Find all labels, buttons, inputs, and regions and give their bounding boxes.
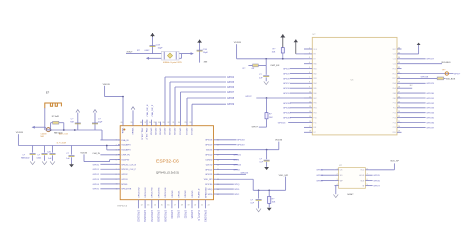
node RF junction 2 [63, 129, 76, 131]
svg-text:VDD33: VDD33 [234, 42, 242, 44]
wire RF main [45, 129, 102, 131]
capacitor C28 [259, 65, 269, 81]
wire EN branch down [265, 59, 267, 66]
svg-text:SPICS0: SPICS0 [205, 184, 213, 186]
svg-text:10pF: 10pF [158, 47, 164, 49]
svg-text:6: 6 [367, 179, 368, 181]
capacitor C20 [70, 119, 80, 124]
svg-text:26: 26 [398, 96, 400, 98]
svg-text:1: 1 [337, 168, 338, 170]
svg-text:GPIO19: GPIO19 [237, 145, 245, 147]
svg-text:C?: C? [22, 155, 26, 157]
svg-text:VDDA3P3: VDDA3P3 [121, 144, 131, 147]
capacitor C25 [250, 190, 261, 208]
svg-text:P14: P14 [393, 122, 396, 124]
svg-text:CH4_IN: CH4_IN [92, 153, 100, 155]
U6 right pins [359, 168, 369, 187]
svg-text:31: 31 [172, 122, 174, 124]
svg-text:37: 37 [144, 122, 146, 124]
wire ADC pin4 [100, 154, 120, 156]
wire XOUT line [126, 53, 192, 55]
net label XIN [204, 61, 208, 63]
svg-text:C?: C? [37, 155, 41, 157]
svg-text:GPIO13: GPIO13 [278, 122, 286, 124]
wire antenna feed [44, 108, 46, 130]
svg-text:GPIO?: GPIO? [252, 126, 259, 128]
wire VDD33 across [105, 96, 123, 98]
svg-text:10K: 10K [272, 52, 276, 54]
svg-text:NM: NM [70, 121, 74, 123]
svg-text:GPIO28: GPIO28 [421, 77, 429, 79]
svg-text:GPIO06: GPIO06 [159, 128, 161, 136]
inductor L1 label [52, 116, 60, 118]
wire XIN return line [148, 57, 182, 59]
ground C23 [42, 161, 47, 164]
svg-text:GPIO18: GPIO18 [237, 140, 245, 142]
svg-text:GPIO34: GPIO34 [426, 113, 434, 115]
VDD arrow C21 [93, 110, 97, 113]
net label VDD33 right [275, 140, 283, 142]
svg-text:C?: C? [66, 153, 70, 155]
svg-text:0R: 0R [252, 68, 255, 70]
svg-text:R?: R? [272, 199, 276, 201]
capacitor C24 [259, 150, 269, 167]
svg-text:1uF: 1uF [250, 203, 254, 205]
node bus-pin3 [106, 145, 108, 147]
svg-text:C15: C15 [393, 64, 396, 66]
wire U5 pin2 VDD [296, 53, 304, 55]
svg-text:13: 13 [309, 106, 311, 108]
svg-text:GPIO19: GPIO19 [205, 145, 213, 147]
ground U6 [333, 194, 338, 197]
antenna E1 designator [46, 91, 50, 95]
svg-text:7: 7 [309, 77, 310, 79]
svg-text:GPIO16/S3: GPIO16/S3 [143, 210, 145, 223]
wire BOOT long [245, 96, 304, 98]
svg-text:PA8: PA8 [393, 92, 396, 95]
node EN junctions [265, 58, 283, 60]
svg-text:2: 2 [337, 174, 338, 176]
capacitor C22 stub [32, 146, 34, 153]
U1 left GPIO stub wires [93, 164, 118, 190]
svg-text:3: 3 [309, 57, 310, 59]
svg-text:RST: RST [392, 78, 395, 80]
svg-text:GPIO6: GPIO6 [227, 87, 235, 89]
U1 top pins [120, 122, 192, 140]
power flag (XTAL) [150, 33, 155, 37]
svg-text:GPIO?: GPIO? [454, 73, 461, 75]
svg-text:13: 13 [147, 204, 149, 206]
capacitor C20 wire [77, 113, 79, 130]
svg-text:GPIO11: GPIO11 [283, 108, 291, 110]
capacitor C26 [47, 151, 56, 160]
ground C22 [30, 161, 35, 164]
svg-text:33: 33 [398, 62, 400, 64]
U5 right pins [392, 47, 401, 134]
svg-text:GPIO3: GPIO3 [93, 179, 100, 181]
svg-text:P12: P12 [393, 113, 396, 115]
svg-text:SPIQ: SPIQ [234, 184, 239, 186]
svg-text:GPIO2: GPIO2 [93, 174, 100, 176]
svg-text:VDD33: VDD33 [206, 150, 213, 152]
svg-text:GPIO18: GPIO18 [205, 140, 213, 142]
svg-text:GPIO12: GPIO12 [185, 128, 187, 136]
svg-text:GPIO10: GPIO10 [179, 128, 181, 136]
svg-text:VDD33: VDD33 [103, 84, 111, 86]
inductor L1 alt label [54, 133, 63, 135]
svg-text:GPIO2: GPIO2 [316, 181, 323, 183]
crystal X1 outline [162, 51, 180, 60]
resistor R3 [268, 190, 276, 207]
svg-text:GPIO22: GPIO22 [183, 210, 185, 219]
svg-text:5: 5 [309, 67, 310, 69]
svg-text:N? 0dR: N? 0dR [52, 116, 60, 118]
wire q3 label [402, 59, 435, 61]
net label XTAL_N vertical [146, 104, 149, 117]
svg-text:39: 39 [130, 122, 132, 124]
svg-text:GPIO4: GPIO4 [227, 77, 235, 79]
wires GPIO fan to labels [165, 77, 235, 124]
svg-text:18: 18 [309, 131, 311, 133]
svg-text:GPIO7: GPIO7 [227, 92, 235, 94]
U1 right wires rows 4-7 [216, 154, 242, 171]
svg-text:1uF: 1uF [66, 158, 70, 160]
capacitor C22 [21, 154, 36, 161]
svg-text:GPIO30: GPIO30 [426, 93, 434, 95]
svg-text:20: 20 [398, 126, 400, 128]
VDD arrow C20 [76, 110, 80, 113]
svg-text:GPIO26: GPIO26 [241, 173, 249, 175]
svg-text:GPIO36: GPIO36 [426, 122, 434, 124]
svg-text:VDD_SPI: VDD_SPI [279, 175, 289, 177]
svg-text:GPIO18/S5: GPIO18/S5 [157, 210, 159, 223]
svg-text:GPIO25: GPIO25 [190, 210, 192, 219]
svg-text:CHIP_EN: CHIP_EN [270, 65, 280, 67]
svg-text:GPIO5: GPIO5 [227, 82, 235, 84]
RF connector J1 [46, 128, 50, 132]
U1 title [156, 159, 179, 165]
svg-text:P11: P11 [314, 122, 317, 124]
ground C25 [256, 209, 261, 212]
capacitor C27 [66, 153, 74, 163]
svg-text:36: 36 [398, 47, 400, 49]
svg-text:VDD-BUS: VDD-BUS [446, 78, 456, 80]
inductor bus note [56, 142, 66, 144]
svg-text:GPIO6: GPIO6 [283, 78, 290, 80]
svg-text:I2C_S: I2C_S [233, 159, 239, 161]
svg-text:R?: R? [137, 50, 141, 52]
svg-text:8: 8 [367, 168, 368, 170]
svg-text:4: 4 [116, 154, 117, 156]
capacitor C21 [92, 119, 103, 124]
svg-text:GPIO17/S4: GPIO17/S4 [150, 210, 152, 223]
svg-text:SPID: SPID [234, 189, 239, 191]
svg-text:GPIO21: GPIO21 [177, 210, 179, 219]
wire RF loop up-right [63, 123, 65, 130]
svg-text:GPIO12: GPIO12 [283, 113, 291, 115]
wire VDD33 row3 long [216, 142, 279, 150]
net label BOOT low [252, 126, 267, 128]
U1 right wire row8 [216, 173, 249, 175]
svg-text:GPIO7: GPIO7 [373, 186, 380, 188]
resistor R5 [437, 77, 456, 80]
svg-text:25: 25 [398, 101, 400, 103]
wire U6 VCC [369, 163, 394, 169]
svg-text:GPIO5: GPIO5 [93, 189, 100, 191]
svg-text:5: 5 [367, 184, 368, 186]
svg-text:19: 19 [398, 131, 400, 133]
node BOOT junction [266, 97, 268, 99]
svg-text:TP?: TP? [442, 70, 445, 72]
svg-text:U?: U? [313, 34, 317, 36]
svg-text:GPIO16/S3: GPIO16/S3 [145, 187, 147, 198]
svg-text:1: 1 [116, 140, 117, 142]
svg-text:GPIO2: GPIO2 [233, 169, 240, 171]
U1 right pins [204, 140, 219, 196]
svg-text:24: 24 [398, 106, 400, 108]
svg-text:40: 40 [120, 122, 122, 124]
U5 left label wires 2 [283, 103, 304, 120]
svg-text:U0RXD: U0RXD [206, 159, 213, 161]
svg-text:GPIO3: GPIO3 [121, 179, 128, 181]
svg-text:20: 20 [194, 204, 196, 206]
svg-text:29: 29 [398, 82, 400, 84]
svg-text:PA0: PA0 [314, 63, 317, 66]
U5 refdes [313, 34, 317, 36]
svg-text:P10: P10 [393, 103, 396, 105]
svg-text:SPIC: SPIC [234, 194, 239, 196]
power flag (XTAL right) [197, 40, 202, 43]
wire VDD_SPI riser [285, 177, 287, 191]
U1 refdes [118, 205, 128, 207]
svg-text:SPIQ: SPIQ [208, 189, 213, 191]
svg-text:PB2: PB2 [314, 113, 317, 115]
svg-text:4: 4 [337, 184, 338, 186]
svg-text:PA7: PA7 [314, 97, 317, 100]
capacitor C27 stub [71, 146, 73, 155]
wire VDDA pin up [122, 97, 124, 124]
resistor R2 series 0R [243, 64, 267, 70]
power arrow U1 pin39 [131, 107, 135, 124]
svg-text:31: 31 [398, 72, 400, 74]
svg-text:GPIO5: GPIO5 [373, 175, 380, 177]
mcu U5 outline [312, 37, 397, 134]
wire pin5 stub [110, 159, 121, 161]
net label VDD_SPI [279, 175, 289, 177]
svg-text:VDD33: VDD33 [80, 153, 88, 155]
svg-text:10pF: 10pF [203, 52, 209, 54]
resistor R1 pull-up [272, 48, 285, 59]
svg-text:GPIO19/S6: GPIO19/S6 [163, 210, 165, 223]
svg-text:GPIO1: GPIO1 [93, 169, 100, 171]
power arrow U5 right [402, 43, 421, 54]
node VDD33 corner [122, 96, 124, 98]
U1 left pins [116, 139, 137, 191]
inductor L1 [53, 121, 59, 124]
U1 right wires rows 10-12 [216, 184, 240, 196]
svg-text:E?: E? [46, 91, 50, 95]
net label VDD_SPI U6 [390, 161, 399, 163]
node VDD_SPI junctions [258, 189, 270, 191]
svg-text:SPIC4TRE: SPIC4TRE [121, 189, 131, 191]
svg-text:VBT: VBT [393, 49, 396, 51]
svg-text:8: 8 [309, 82, 310, 84]
node RF junction 1 [50, 129, 52, 131]
svg-text:GPIO8: GPIO8 [227, 98, 235, 100]
svg-text:CHIP_PU: CHIP_PU [121, 154, 130, 156]
net label XTAL_P vertical [151, 104, 154, 117]
svg-text:R?: R? [269, 114, 273, 116]
svg-text:FLASH_D: FLASH_D [198, 188, 201, 198]
svg-text:GPIO22: GPIO22 [205, 169, 213, 171]
svg-text:33: 33 [162, 122, 164, 124]
wire crystal right join [181, 54, 183, 59]
wire VDD33 drop [104, 86, 106, 97]
resistor R? label [137, 50, 150, 52]
svg-text:22: 22 [208, 204, 210, 206]
svg-text:1uF: 1uF [259, 77, 263, 79]
capacitor C26 stub [52, 146, 54, 153]
svg-text:GPIO6: GPIO6 [373, 181, 380, 183]
U5 left pins [304, 47, 318, 134]
svg-text:GPIO7: GPIO7 [283, 83, 290, 85]
wire q9 short [402, 85, 414, 88]
svg-text:0402: 0402 [37, 158, 42, 160]
svg-text:2: 2 [309, 52, 310, 54]
wire VDD33 bus [18, 145, 120, 147]
svg-text:15: 15 [161, 204, 163, 206]
U6 part label [347, 194, 354, 196]
svg-text:VDD-BUS: VDD-BUS [441, 62, 451, 64]
svg-text:0402: 0402 [145, 50, 151, 52]
wire RF to LNA_IN [100, 139, 120, 141]
svg-text:C26: C26 [47, 151, 52, 153]
svg-text:R?: R? [243, 68, 247, 70]
svg-text:C18: C18 [203, 49, 208, 51]
svg-text:PB0: PB0 [314, 103, 317, 105]
svg-text:HOLD: HOLD [359, 175, 365, 177]
svg-text:32: 32 [398, 67, 400, 69]
crystal X1 body [167, 53, 172, 58]
svg-text:EPAD/GND: EPAD/GND [204, 187, 207, 198]
svg-text:GPIO07: GPIO07 [163, 128, 165, 136]
net arrow left on XIN line [146, 57, 149, 60]
U5 right label wires [402, 93, 435, 129]
crystal X1 value label [163, 61, 183, 64]
wire q6 testpoint [402, 73, 461, 75]
svg-text:SPID: SPID [208, 194, 213, 196]
svg-text:ESP32-C6: ESP32-C6 [156, 159, 179, 165]
svg-text:XTAL_32K_N: XTAL_32K_N [141, 128, 144, 141]
svg-text:GPIO21: GPIO21 [179, 190, 181, 198]
svg-text:35: 35 [153, 122, 155, 124]
svg-text:GPIO08: GPIO08 [168, 128, 170, 136]
svg-text:PA4: PA4 [314, 82, 317, 85]
svg-text:5: 5 [116, 159, 117, 161]
svg-text:FLASH_D: FLASH_D [197, 210, 200, 221]
svg-text:4: 4 [309, 62, 310, 64]
resistor R4 pull [265, 98, 273, 127]
svg-text:10pF: 10pF [98, 121, 103, 123]
svg-text:C?: C? [259, 74, 263, 76]
svg-text:3: 3 [337, 179, 338, 181]
svg-text:38: 38 [140, 122, 142, 124]
node row3 junction [266, 149, 268, 151]
svg-text:BT: BT [314, 59, 316, 61]
svg-text:GPIO27: GPIO27 [426, 59, 434, 61]
U1 bottom pins with net labels [137, 187, 210, 223]
svg-text:22: 22 [398, 116, 400, 118]
U1 subtitle [156, 170, 179, 174]
svg-text:PD1: PD1 [393, 73, 396, 75]
svg-text:SGM?: SGM? [347, 194, 354, 196]
svg-text:P11: P11 [393, 108, 396, 110]
svg-text:GPIO17/S4: GPIO17/S4 [152, 187, 154, 198]
net arrow right on XOUT line [191, 52, 194, 55]
svg-text:GPIO8: GPIO8 [283, 88, 290, 90]
ground C26 [50, 161, 55, 164]
power flag CHIP_EN pull-up [280, 34, 285, 47]
capacitor C23 stub [44, 146, 46, 153]
wire VDD33 label drop [17, 134, 19, 145]
svg-text:2: 2 [116, 145, 117, 147]
svg-text:XIN: XIN [204, 61, 208, 63]
svg-text:28: 28 [189, 122, 191, 124]
svg-text:PA5: PA5 [314, 87, 317, 90]
svg-text:GPIO24: GPIO24 [233, 164, 241, 166]
svg-text:XTAL_32K_N: XTAL_32K_N [146, 104, 149, 117]
svg-text:10: 10 [309, 92, 311, 94]
svg-text:15: 15 [309, 116, 311, 118]
wire RF corner down [101, 130, 103, 140]
ground C24 (filled) [264, 167, 269, 170]
capacitor C23 [37, 154, 48, 161]
wire VDD33 EN drop [237, 44, 304, 59]
ground R3 (filled) [267, 208, 272, 211]
svg-text:PA9: PA9 [393, 97, 396, 100]
svg-text:VDD33: VDD33 [16, 132, 24, 134]
svg-text:GPIO22: GPIO22 [185, 190, 187, 198]
svg-text:27: 27 [398, 92, 400, 94]
wire to C19 [152, 37, 154, 54]
ground C27 (filled) [69, 164, 74, 168]
svg-text:36: 36 [149, 122, 151, 124]
svg-text:GPIO9: GPIO9 [227, 104, 235, 106]
svg-text:1uF: 1uF [48, 158, 52, 160]
net label VDD33 top [103, 84, 111, 86]
svg-text:21: 21 [201, 204, 203, 206]
svg-text:U0TXD: U0TXD [206, 164, 213, 166]
svg-text:GPIO25: GPIO25 [192, 190, 194, 198]
svg-text:GPIO20: GPIO20 [205, 154, 213, 156]
svg-text:GPIO4: GPIO4 [93, 184, 100, 186]
svg-text:32: 32 [167, 122, 169, 124]
svg-text:GPIO09: GPIO09 [173, 128, 175, 136]
svg-text:C19: C19 [156, 44, 161, 46]
svg-text:GPIO1: GPIO1 [316, 175, 323, 177]
svg-text:GPIO10: GPIO10 [283, 103, 291, 105]
svg-text:C?: C? [259, 158, 263, 160]
svg-text:R?: R? [273, 48, 277, 50]
svg-text:GPIO05: GPIO05 [154, 128, 156, 136]
capacitor C21 wire [94, 113, 96, 130]
net label VDD33 bus [16, 132, 24, 134]
antenna E1 meander [45, 103, 62, 108]
net arrow left RF test [32, 126, 35, 129]
svg-text:9: 9 [309, 87, 310, 89]
U6 right wires [369, 175, 380, 187]
svg-text:U?: U? [339, 165, 343, 167]
